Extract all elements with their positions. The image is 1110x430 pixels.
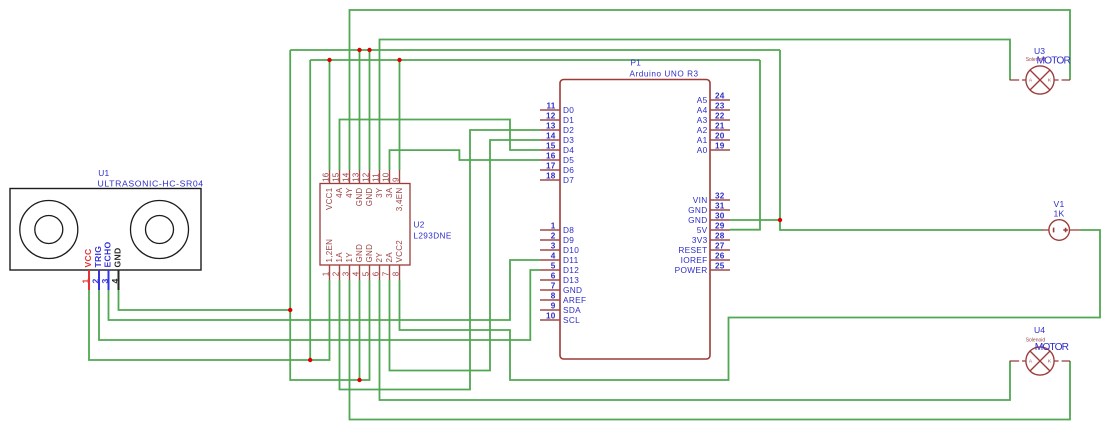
wire net 3Y to motor U3 pin A <box>380 40 1011 171</box>
svg-text:7: 7 <box>381 271 390 276</box>
U2 pin 15 stub <box>339 170 341 184</box>
U2 pin 12 stub <box>369 170 371 184</box>
junction 5V at U2 pin16 <box>327 58 331 62</box>
svg-text:U2: U2 <box>414 220 425 229</box>
U2 pin 1 stub <box>329 265 331 280</box>
P1 pin 22 stub <box>710 119 730 121</box>
motor U3 symbol <box>1010 66 1071 94</box>
svg-text:D11: D11 <box>563 255 579 265</box>
svg-text:ECHO: ECHO <box>103 241 113 267</box>
svg-text:U1: U1 <box>98 168 109 178</box>
svg-text:D13: D13 <box>563 275 579 285</box>
svg-text:20: 20 <box>715 132 725 141</box>
svg-text:25: 25 <box>715 262 725 271</box>
svg-text:2: 2 <box>551 232 556 241</box>
svg-text:D5: D5 <box>563 155 574 165</box>
svg-text:3A: 3A <box>385 187 394 198</box>
svg-text:A2: A2 <box>697 125 708 135</box>
U2 pin 7 stub <box>389 265 391 280</box>
P1 pin 19 stub <box>710 149 730 151</box>
svg-text:K: K <box>1048 77 1052 83</box>
P1 pin 27 stub <box>710 249 730 251</box>
arduino P1 body <box>560 80 710 360</box>
svg-text:GND: GND <box>113 248 123 268</box>
svg-text:21: 21 <box>715 122 725 131</box>
svg-text:5: 5 <box>361 271 370 276</box>
P1 pin 6 stub <box>540 279 560 281</box>
wire GND bus top horizontal <box>290 49 780 51</box>
svg-text:MOTOR: MOTOR <box>1037 56 1071 67</box>
svg-text:18: 18 <box>546 172 556 181</box>
junction GND at U2 pin4 <box>357 378 361 382</box>
P1 pin 23 stub <box>710 109 730 111</box>
svg-text:2: 2 <box>331 271 340 276</box>
svg-text:4A: 4A <box>335 187 344 198</box>
svg-text:1A: 1A <box>335 252 344 263</box>
svg-text:14: 14 <box>341 172 350 182</box>
wire 2Y to motor U4 pin A <box>380 280 1011 400</box>
ultrasonic sensor U1 body <box>10 189 201 271</box>
U2 pin 4 stub <box>359 265 361 280</box>
svg-text:D2: D2 <box>563 125 574 135</box>
svg-text:IOREF: IOREF <box>681 255 708 265</box>
svg-text:19: 19 <box>715 142 725 151</box>
P1 pin 18 stub <box>540 179 560 181</box>
svg-text:9: 9 <box>551 302 556 311</box>
P1 pin 2 stub <box>540 239 560 241</box>
svg-text:GND: GND <box>365 188 374 207</box>
svg-text:6: 6 <box>551 272 556 281</box>
svg-text:P1: P1 <box>631 59 642 68</box>
wire ECHO to D11 <box>109 260 541 320</box>
svg-text:GND: GND <box>355 188 364 207</box>
svg-text:GND: GND <box>355 244 364 263</box>
P1 pin 17 stub <box>540 169 560 171</box>
P1 pin 11 stub <box>540 109 560 111</box>
svg-text:29: 29 <box>715 222 725 231</box>
U2 pin 10 stub <box>389 170 391 184</box>
svg-text:4: 4 <box>351 271 360 276</box>
svg-text:3Y: 3Y <box>375 187 384 198</box>
U1 right transducer <box>131 201 189 259</box>
svg-text:17: 17 <box>546 162 556 171</box>
svg-text:U3: U3 <box>1034 46 1045 56</box>
wire TRIG to D12 <box>99 270 540 340</box>
wire U2 pin9 34EN drop <box>399 60 401 170</box>
U2 pin 13 stub <box>359 170 361 184</box>
svg-text:30: 30 <box>715 212 725 221</box>
P1 pin 16 stub <box>540 159 560 161</box>
U2 pin 16 stub <box>329 170 331 184</box>
wire 3A to D5 <box>390 150 541 170</box>
wire VCC2 to V1 plus <box>400 230 1101 380</box>
svg-text:24: 24 <box>715 92 725 101</box>
svg-text:4: 4 <box>551 252 556 261</box>
P1 pin 8 stub <box>540 299 560 301</box>
svg-text:3: 3 <box>341 271 350 276</box>
junction GND at P1 pin30 <box>778 218 782 222</box>
svg-text:3: 3 <box>551 242 556 251</box>
svg-text:D9: D9 <box>563 235 574 245</box>
wire U2 pin4 GND drop <box>359 280 361 380</box>
svg-text:D1: D1 <box>563 115 574 125</box>
P1 pin 7 stub <box>540 289 560 291</box>
svg-text:14: 14 <box>546 132 556 141</box>
wire sensor VCC to 5V <box>89 280 330 360</box>
P1 pin 4 stub <box>540 259 560 261</box>
P1 pin 29 stub <box>710 229 730 231</box>
svg-text:5V: 5V <box>697 225 708 235</box>
wire P1 GND pin30 stub link <box>730 219 780 221</box>
svg-text:D8: D8 <box>563 225 574 235</box>
P1 pin 9 stub <box>540 309 560 311</box>
junction GND at U2 pin12 <box>367 48 371 52</box>
svg-text:11: 11 <box>546 102 555 111</box>
wire GND left vertical <box>290 50 369 380</box>
P1 pin 14 stub <box>540 139 560 141</box>
svg-text:D10: D10 <box>563 245 579 255</box>
svg-text:32: 32 <box>715 192 725 201</box>
U2 pin 6 stub <box>379 265 381 280</box>
junction GND at U2 pin13 <box>357 48 361 52</box>
svg-text:A0: A0 <box>697 145 708 155</box>
svg-text:4Y: 4Y <box>345 187 354 198</box>
U1 pin 4 GND stub <box>118 270 120 290</box>
svg-text:VCC2: VCC2 <box>395 240 404 263</box>
svg-text:GND: GND <box>688 215 707 225</box>
svg-text:5: 5 <box>551 262 556 271</box>
P1 pin 30 stub <box>710 219 730 221</box>
P1 pin 32 stub <box>710 199 730 201</box>
wire 5V left vertical <box>309 60 311 360</box>
svg-text:D12: D12 <box>563 265 579 275</box>
driver IC U2 body <box>320 184 410 266</box>
svg-text:26: 26 <box>715 252 725 261</box>
svg-text:12: 12 <box>361 172 370 182</box>
svg-text:AREF: AREF <box>563 295 586 305</box>
svg-text:7: 7 <box>551 282 556 291</box>
svg-text:VCC1: VCC1 <box>325 187 334 210</box>
P1 pin 21 stub <box>710 129 730 131</box>
svg-text:27: 27 <box>715 242 725 251</box>
U1 pin 1 VCC stub <box>88 270 90 290</box>
svg-text:POWER: POWER <box>675 265 708 275</box>
svg-text:VCC: VCC <box>83 248 93 267</box>
svg-text:V1: V1 <box>1053 199 1064 209</box>
wire U2 pin16 VCC1 drop <box>329 60 331 170</box>
svg-text:Arduino UNO R3: Arduino UNO R3 <box>630 70 699 79</box>
svg-text:12: 12 <box>546 112 556 121</box>
svg-text:1: 1 <box>81 279 91 284</box>
svg-text:A5: A5 <box>697 95 708 105</box>
junction 5V on sensor VCC wire <box>308 358 312 362</box>
svg-text:A: A <box>1029 77 1033 83</box>
svg-text:1,2EN: 1,2EN <box>325 239 334 263</box>
svg-text:D7: D7 <box>563 175 574 185</box>
P1 pin 13 stub <box>540 129 560 131</box>
P1 pin 28 stub <box>710 239 730 241</box>
U2 pin 14 stub <box>349 170 351 184</box>
svg-text:3: 3 <box>100 279 110 284</box>
svg-text:15: 15 <box>331 172 340 182</box>
svg-text:13: 13 <box>351 172 360 182</box>
svg-text:3V3: 3V3 <box>692 235 708 245</box>
svg-text:2Y: 2Y <box>375 252 384 263</box>
U2 pin 2 stub <box>339 265 341 280</box>
P1 pin 24 stub <box>710 99 730 101</box>
svg-text:6: 6 <box>371 271 380 276</box>
svg-text:16: 16 <box>321 172 330 182</box>
svg-text:1K: 1K <box>1053 209 1064 219</box>
U2 pin 3 stub <box>349 265 351 280</box>
svg-text:A3: A3 <box>697 115 708 125</box>
svg-text:TRIG: TRIG <box>93 246 103 268</box>
wire U2 pin12 GND drop <box>369 50 371 170</box>
voltage source V1 symbol <box>1042 220 1080 241</box>
svg-text:3,4EN: 3,4EN <box>395 188 404 212</box>
svg-text:SCL: SCL <box>563 315 580 325</box>
svg-text:L293DNE: L293DNE <box>413 232 451 241</box>
P1 pin 12 stub <box>540 119 560 121</box>
P1 pin 20 stub <box>710 139 730 141</box>
svg-text:ULTRASONIC-HC-SR04: ULTRASONIC-HC-SR04 <box>98 179 204 189</box>
P1 pin 15 stub <box>540 149 560 151</box>
wire 1Y to motor U4 pin K <box>350 280 1071 420</box>
svg-text:VIN: VIN <box>693 195 708 205</box>
P1 pin 3 stub <box>540 249 560 251</box>
svg-text:D0: D0 <box>563 105 574 115</box>
svg-text:SDA: SDA <box>563 305 581 315</box>
wire 4A to D4 <box>340 120 541 171</box>
U1 pin 3 ECHO stub <box>108 270 110 290</box>
wire net 4Y to motor U3 pin K <box>350 10 1071 170</box>
P1 pin 26 stub <box>710 259 730 261</box>
svg-text:GND: GND <box>688 205 707 215</box>
wire 5V to P1 pin29 <box>730 60 760 230</box>
U2 pin 5 stub <box>369 265 371 280</box>
P1 pin 5 stub <box>540 269 560 271</box>
wire 1A to D2 <box>340 130 541 390</box>
svg-text:MOTOR: MOTOR <box>1035 342 1069 353</box>
svg-text:22: 22 <box>715 112 725 121</box>
P1 pin 1 stub <box>540 229 560 231</box>
svg-text:RESET: RESET <box>678 245 707 255</box>
svg-text:15: 15 <box>546 142 556 151</box>
junction sensor GND on bus <box>288 308 292 312</box>
svg-text:A4: A4 <box>697 105 708 115</box>
svg-text:9: 9 <box>391 177 400 182</box>
svg-text:4: 4 <box>110 279 120 284</box>
svg-text:A: A <box>1029 358 1033 364</box>
svg-text:2A: 2A <box>385 252 394 263</box>
svg-text:23: 23 <box>715 102 725 111</box>
svg-text:A1: A1 <box>697 135 708 145</box>
wire GND bus right vertical to P1 pin30 and V1 <box>780 50 1043 230</box>
svg-text:10: 10 <box>546 312 556 321</box>
U2 pin 9 stub <box>399 170 401 184</box>
U2 pin 11 stub <box>379 170 381 184</box>
svg-text:28: 28 <box>715 232 725 241</box>
svg-text:GND: GND <box>563 285 582 295</box>
U1 left transducer <box>20 201 78 259</box>
svg-text:8: 8 <box>391 271 400 276</box>
svg-text:1Y: 1Y <box>345 252 354 263</box>
svg-text:11: 11 <box>371 173 380 182</box>
svg-text:U4: U4 <box>1034 325 1045 335</box>
svg-text:16: 16 <box>546 152 556 161</box>
wire sensor GND to bus <box>119 290 291 310</box>
svg-text:8: 8 <box>551 292 556 301</box>
svg-text:D4: D4 <box>563 145 574 155</box>
svg-text:1: 1 <box>321 271 330 276</box>
svg-text:K: K <box>1048 358 1052 364</box>
motor U4 symbol <box>1010 347 1071 375</box>
svg-text:31: 31 <box>715 202 725 211</box>
svg-text:D3: D3 <box>563 135 574 145</box>
svg-text:GND: GND <box>365 244 374 263</box>
wire U2 pin13 GND drop <box>359 50 361 170</box>
U1 pin 2 TRIG stub <box>98 270 100 290</box>
svg-text:10: 10 <box>381 172 390 182</box>
svg-text:2: 2 <box>91 279 101 284</box>
P1 pin 10 stub <box>540 319 560 321</box>
P1 pin 25 stub <box>710 269 730 271</box>
svg-text:13: 13 <box>546 122 556 131</box>
U2 pin 8 stub <box>399 265 401 280</box>
junction 5V at U2 pin9 <box>397 58 401 62</box>
wire 5V bus horizontal <box>310 59 760 61</box>
P1 pin 31 stub <box>710 209 730 211</box>
wire 2A to D3 <box>390 140 541 371</box>
svg-text:1: 1 <box>551 222 556 231</box>
svg-text:D6: D6 <box>563 165 574 175</box>
